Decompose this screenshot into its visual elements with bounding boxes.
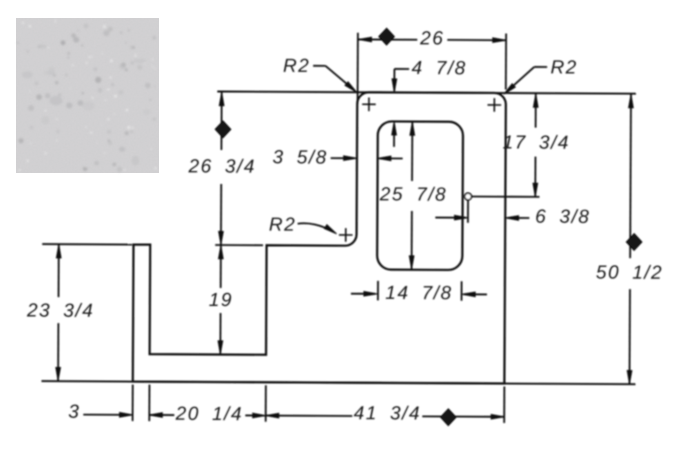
- svg-text:14 7/8: 14 7/8: [385, 283, 452, 304]
- svg-text:R2: R2: [269, 215, 296, 236]
- svg-text:3 5/8: 3 5/8: [273, 147, 328, 168]
- svg-text:R2: R2: [550, 57, 577, 78]
- svg-text:26: 26: [419, 28, 444, 49]
- svg-text:3: 3: [68, 402, 80, 423]
- svg-text:19: 19: [209, 290, 233, 311]
- svg-text:20 1/4: 20 1/4: [175, 404, 243, 425]
- svg-text:17 3/4: 17 3/4: [503, 132, 570, 153]
- svg-text:25 7/8: 25 7/8: [379, 184, 447, 205]
- svg-text:23 3/4: 23 3/4: [26, 301, 94, 322]
- svg-text:50 1/2: 50 1/2: [596, 262, 663, 283]
- svg-text:26 3/4: 26 3/4: [188, 156, 256, 177]
- svg-text:41 3/4: 41 3/4: [354, 403, 421, 424]
- svg-text:R2: R2: [283, 56, 310, 77]
- svg-text:4 7/8: 4 7/8: [411, 58, 466, 79]
- svg-text:6 3/8: 6 3/8: [535, 207, 590, 228]
